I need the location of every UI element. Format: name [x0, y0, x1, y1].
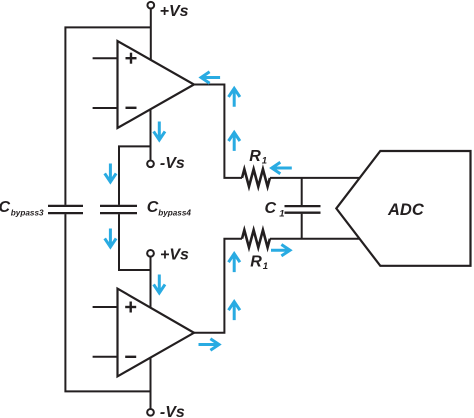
svg-text:R: R: [249, 148, 261, 165]
svg-text:+Vs: +Vs: [160, 3, 189, 20]
capacitor Cbypass4: [100, 206, 137, 213]
capacitor C1: [285, 206, 321, 213]
svg-text:1: 1: [263, 261, 268, 272]
wire: R1 top to ADC upper input: [270, 177, 361, 179]
svg-text:+Vs: +Vs: [160, 247, 189, 264]
arrow: up on top vertical wire (lower): [229, 133, 240, 151]
svg-text:C: C: [0, 199, 11, 216]
wire: op-amp U2 V- pin to bottom -Vs terminal: [150, 358, 152, 409]
arrow: right below U2 output: [199, 339, 220, 350]
arrow: left above wire right of R1 top: [272, 162, 292, 173]
wire: jog from middle rail to U1 V- stem: [119, 146, 151, 205]
terminal -Vs (U1): [147, 160, 154, 167]
wire: R1 bottom to ADC lower input: [270, 238, 361, 240]
svg-text:C: C: [147, 199, 159, 216]
arrow: up on top vertical wire (upper): [229, 88, 240, 106]
wire: left rail below Cbypass3 to bottom -Vs node: [65, 214, 150, 391]
wire: C1 top lead: [301, 178, 303, 205]
svg-text:bypass4: bypass4: [158, 208, 191, 217]
svg-text:ADC: ADC: [387, 201, 425, 219]
ADC block: [336, 151, 470, 266]
terminal +Vs (U2): [147, 250, 154, 257]
arrow: right below wire right of R1 bottom: [271, 245, 290, 256]
arrow: down beside U2 V+ stem: [154, 275, 165, 293]
arrow: down on middle rail above Cbypass4: [105, 164, 116, 182]
svg-text:-Vs: -Vs: [160, 155, 185, 172]
arrow: down on middle rail below Cbypass4: [105, 229, 116, 247]
svg-text:bypass3: bypass3: [11, 208, 44, 217]
wire: C1 bottom lead: [301, 214, 303, 239]
svg-text:1: 1: [262, 155, 267, 166]
arrow: down beside U1 V- stem: [154, 122, 165, 140]
svg-text:R: R: [250, 253, 262, 270]
svg-text:C: C: [265, 200, 277, 217]
wire: op-amp U1 V- pin to -Vs terminal: [150, 109, 152, 160]
current flow arrows (cyan): [105, 72, 292, 350]
wire: +Vs terminal stem to op-amp U1 V+ pin: [150, 9, 152, 60]
resistor R1 (bottom): [242, 230, 270, 247]
wire: U2 output to resistor R1 (bottom): [194, 239, 242, 333]
terminal -Vs (bottom): [147, 409, 154, 416]
wire: middle rail below Cbypass4 to +Vs node of U2: [119, 214, 151, 270]
svg-text:-Vs: -Vs: [160, 404, 185, 418]
arrow: left above U1 output: [201, 72, 220, 83]
op-amp U2: [93, 289, 194, 377]
wire: U1 output to resistor R1 (top): [194, 85, 242, 178]
op-amp U1: [93, 41, 194, 128]
resistor R1 (top): [242, 169, 270, 186]
terminal +Vs (top): [147, 2, 154, 9]
capacitor Cbypass3: [48, 206, 83, 213]
wire: +Vs terminal stem to op-amp U2 V+ pin: [150, 257, 152, 308]
wire: +Vs top rail to left bypass rail: [65, 27, 150, 205]
arrow: up on bottom vertical wire (upper): [229, 302, 240, 320]
arrow: up on bottom vertical wire (lower): [229, 254, 240, 272]
svg-text:1: 1: [279, 208, 284, 219]
